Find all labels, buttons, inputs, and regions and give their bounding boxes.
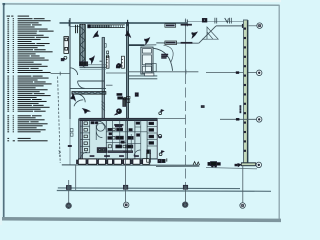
door arc y81 [78, 81, 85, 88]
cl label [61, 58, 65, 60]
corridor diagonal wall [199, 26, 216, 43]
toilet stall hatched band [80, 121, 83, 159]
hatched wall horizontal [72, 92, 106, 95]
central corridor wall x127 [127, 23, 129, 119]
wall line y67 [80, 66, 107, 68]
grid line C left [157, 117, 185, 119]
door arcs in wet area [96, 121, 106, 138]
black fixture y63 [116, 63, 121, 68]
bottom white boxes row [78, 159, 149, 165]
wall x70 lower continuation [69, 119, 71, 165]
wall cabinet left [64, 37, 69, 54]
wall tick at grid 2 [127, 20, 129, 27]
south wall y165 [62, 164, 200, 166]
bracket mark property line [59, 151, 61, 156]
hatched duct wall vertical [80, 25, 86, 68]
north arrow symbol 1 [92, 31, 99, 37]
arrow symbol above toilets [82, 106, 89, 113]
border frame top [2, 4, 280, 5]
grid drop 3 [184, 188, 186, 202]
check mark symbol [225, 18, 229, 23]
door arc left wall [70, 68, 78, 75]
grid drop 4 [242, 166, 244, 203]
door symbols south-east [193, 162, 200, 165]
half circle fixture [157, 135, 162, 138]
thin inner wall line y26.6 [70, 26, 80, 28]
dark wall pair x126 [126, 121, 128, 160]
grid line A right stub [249, 25, 257, 27]
wall line y64.8 [88, 64, 106, 66]
arrow symbol room left [71, 94, 78, 101]
extra small fixtures [109, 122, 140, 143]
extra block partitions [106, 121, 147, 159]
leader dashes left of wall [240, 106, 241, 113]
site boundary upper line [58, 187, 240, 190]
dark band toilet top link [123, 98, 126, 106]
label text 2 [181, 42, 192, 43]
arrow symbol near shaft [144, 38, 151, 45]
dash fixture right of corridor [201, 106, 204, 108]
pump line [206, 167, 257, 168]
wall double tick at grid 3 [185, 20, 187, 27]
exterior top wall [60, 22, 188, 24]
small wall recess rects [70, 129, 73, 137]
column line x185 dashed [185, 74, 187, 186]
border frame left [3, 3, 5, 219]
dark panel right [147, 150, 151, 162]
dimension dashes below block [90, 155, 139, 158]
wall line y69.2 [80, 68, 106, 70]
equipment block top wall [80, 118, 158, 120]
hatched wall dark foot [80, 62, 88, 66]
ladder dark left cap [88, 25, 90, 28]
grid line B mid [106, 72, 127, 74]
equipment white boxes [108, 128, 125, 148]
left exterior wall [69, 18, 71, 119]
divider y88.6 [70, 88, 106, 90]
green wall anchor dots [244, 28, 245, 152]
stair sweep arc [153, 48, 172, 71]
equipment row 3 [116, 145, 133, 148]
stall partitions [80, 121, 90, 153]
junction square grid1 [66, 186, 71, 190]
room label substation [162, 54, 168, 58]
label box 1 [165, 24, 176, 27]
triangular brace [202, 27, 218, 39]
grid bubble bottom 1 [66, 203, 72, 209]
label text 1 [181, 24, 192, 25]
legend item rows [7, 18, 53, 141]
grid diamond tick [236, 72, 239, 74]
grid bubble right A [257, 23, 263, 29]
border frame bottom thick [2, 217, 281, 222]
divider y81 [78, 80, 104, 82]
door sill white box [145, 73, 154, 76]
small attachment on wall [105, 44, 107, 48]
elevator shaft [141, 47, 153, 74]
grid line B corridor [129, 71, 199, 73]
wet room top fixtures [91, 122, 98, 124]
fixture cluster y95 [117, 94, 130, 103]
grid bubble right D [256, 162, 262, 168]
right column shelves [147, 127, 157, 147]
equipment row 1 [108, 128, 123, 131]
green wall bottom return [241, 163, 255, 166]
tall cabinet right [122, 56, 125, 68]
twin floor boxes [158, 158, 167, 162]
grid drop 1 [68, 180, 70, 203]
wall stub y61 [100, 60, 103, 62]
label box 2 [165, 41, 177, 45]
equipment row 2 [108, 136, 133, 139]
junction square grid2 [123, 185, 127, 189]
double stub bars below top wall [76, 25, 78, 33]
south wall double part [156, 166, 199, 168]
small circle fixture [64, 56, 67, 59]
room label dashes [115, 124, 123, 127]
column line x185 upper [185, 19, 187, 72]
wall x147 [146, 121, 148, 159]
tall cabinet left [106, 56, 109, 68]
legend header row [7, 16, 30, 17]
grid bubble bottom 2 [123, 202, 129, 208]
wet wall vertical x96 [95, 121, 97, 140]
divider y42.5 [156, 42, 199, 44]
black fixture x136 [135, 93, 138, 97]
pump equipment black [208, 162, 220, 168]
grid bubble right B [256, 70, 262, 76]
grid line B right [206, 72, 256, 74]
property dashed line left [58, 77, 61, 164]
hatch marks wall foot [102, 101, 105, 111]
right column fixtures [149, 122, 154, 144]
grid line B stub left [51, 73, 70, 75]
block left edge line [78, 119, 80, 159]
small room right of shaft [145, 64, 156, 72]
door arc below hatch [77, 94, 85, 102]
equipment block floor veil [80, 121, 157, 159]
border frame right [278, 5, 280, 221]
grid bubble right C [256, 117, 262, 123]
wall tick x68 [68, 145, 71, 146]
pipe tick pair 2 [230, 18, 232, 24]
room divider double wall y76-79 [129, 76, 158, 79]
dark studs between boxes [77, 160, 143, 164]
pipe tick pair 1 [215, 18, 217, 24]
wall end tick [242, 24, 244, 27]
grid bubble bottom 3 [182, 202, 188, 208]
door arc bottom left [74, 100, 83, 106]
door arc block south-west [81, 152, 87, 158]
door leaf curve corridor [164, 45, 174, 62]
grid line C right [220, 118, 256, 120]
stub wall x149.8 [149, 150, 151, 165]
flag fixture symbol [159, 110, 164, 115]
corridor top wall right [216, 25, 243, 27]
black junction box top [202, 18, 207, 22]
arrow symbol on corridor wall [125, 31, 131, 37]
divider y44-45 left part [145, 44, 157, 46]
grid bubble bottom 4 [240, 203, 246, 209]
grid diamond tick C [236, 118, 239, 120]
short dash y85 [106, 84, 113, 86]
grid cross tick [185, 70, 187, 75]
door arc block south [134, 150, 140, 156]
arrow symbol mid-left [89, 56, 96, 63]
wall tick at grid 1 [68, 20, 70, 27]
dark cluster lower left [97, 148, 107, 153]
elec room wall x106 [105, 121, 107, 159]
wall x135 [134, 121, 136, 159]
green exterior wall [243, 20, 247, 163]
room divider y45 [129, 44, 145, 46]
dark arrows at wall corner [235, 164, 241, 167]
grid drop 2 [125, 160, 127, 202]
top wall thin continuation [187, 21, 243, 23]
bench row dark strips [108, 151, 133, 153]
flag fixture symbol 2 [159, 151, 164, 156]
arrow symbol corridor right [191, 32, 197, 38]
interior wall x102 [102, 37, 104, 118]
toilet fixtures [84, 122, 88, 151]
circle arrow symbol [115, 109, 122, 115]
stub wall x75.7 [75, 165, 77, 190]
window ladder band [88, 25, 125, 28]
equipment block bottom wall [78, 158, 157, 160]
site boundary lower line [57, 190, 271, 193]
junction square grid3 [183, 185, 187, 189]
grid stub tick [59, 72, 61, 76]
border frame corner nub [3, 3, 5, 5]
small rect pair left edge [107, 51, 109, 58]
